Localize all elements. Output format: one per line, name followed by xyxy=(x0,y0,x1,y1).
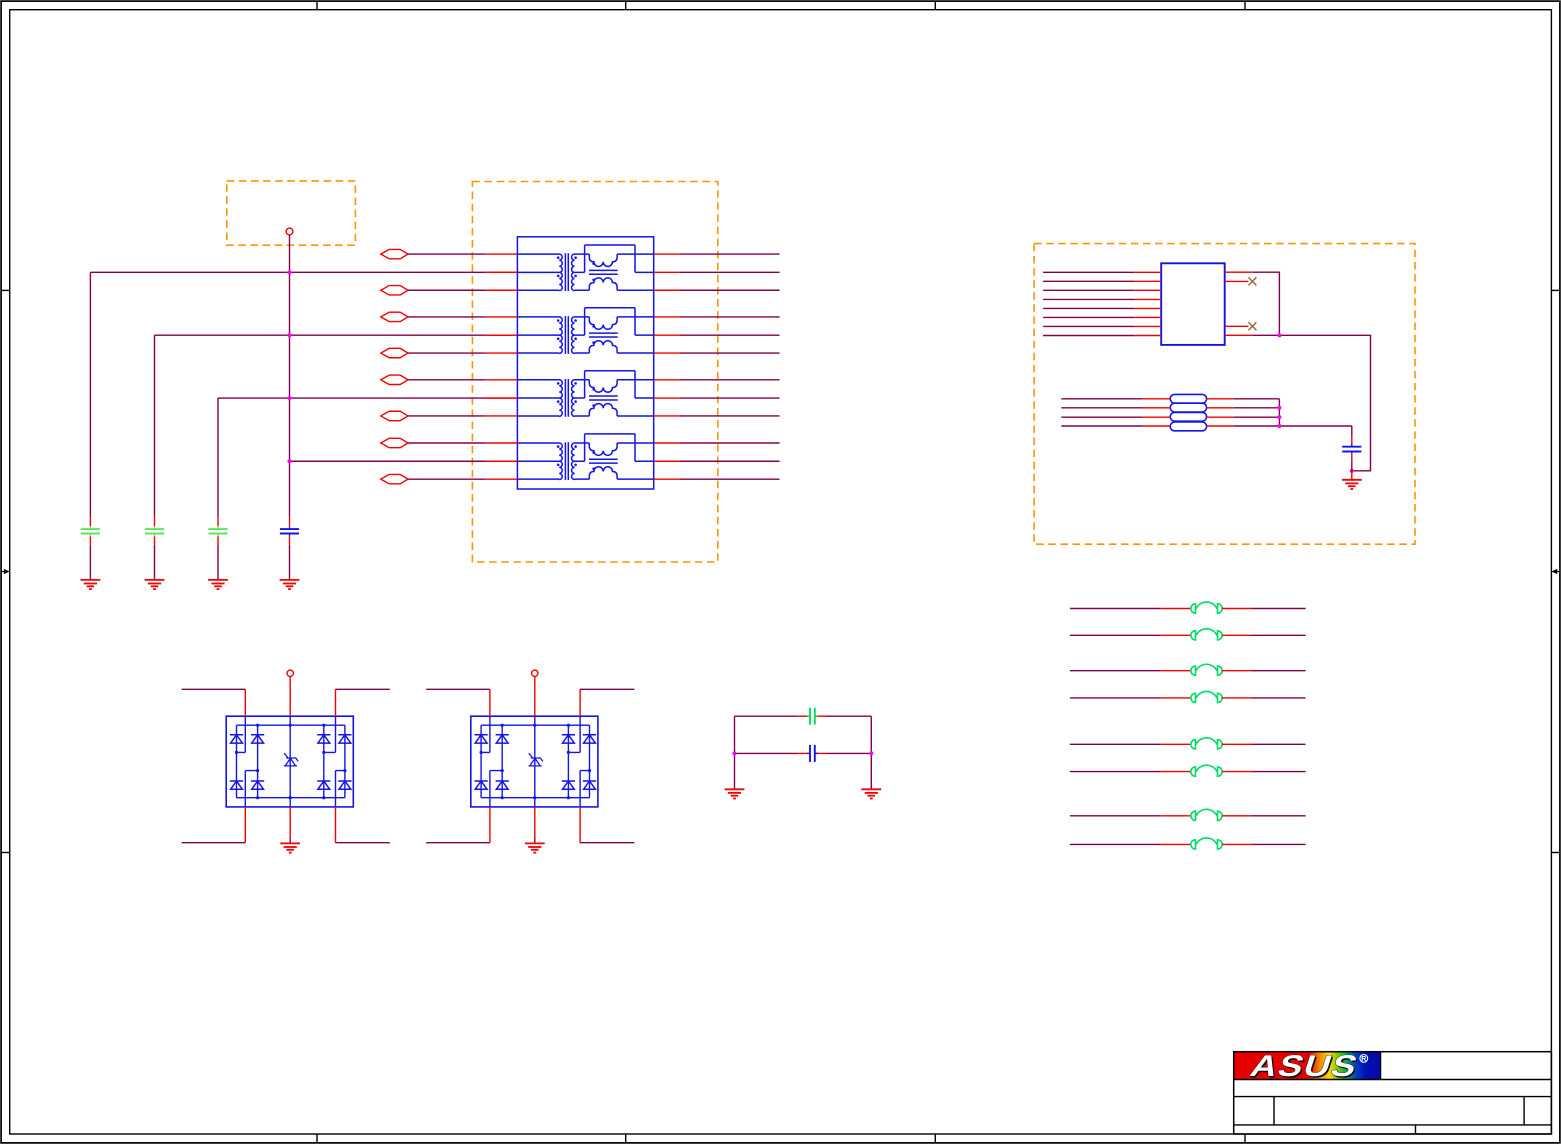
svg-text:R: R xyxy=(1361,1056,1366,1063)
svg-text:ASUS: ASUS xyxy=(1246,1049,1363,1083)
